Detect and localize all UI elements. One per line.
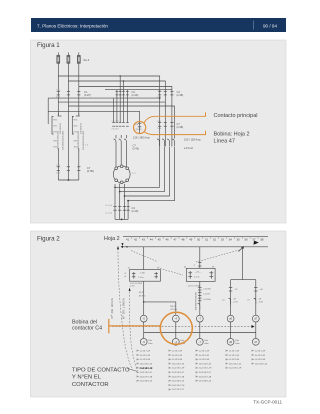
svg-text:Bobina: Hoja 2: Bobina: Hoja 2 <box>214 132 250 138</box>
figura 2 panel <box>31 231 287 397</box>
box B2 footnote specks <box>188 284 201 287</box>
wire H7 <box>48 110 139 112</box>
svg-text:44-H2 4/LINEA: 44-H2 4/LINEA <box>188 284 201 287</box>
contact row2 poles <box>112 123 128 127</box>
svg-text:2 4 2 4 6: 2 4 2 4 6 <box>112 128 119 130</box>
node delta join 2 <box>114 187 116 189</box>
svg-text:Nº DE HOJA: Nº DE HOJA <box>110 298 114 319</box>
svg-text:-28: -28 <box>233 298 236 300</box>
svg-text:43-44 /47 7-4B: 43-44 /47 7-4B <box>199 376 212 378</box>
dashed leader top-left <box>131 251 157 262</box>
contact list column 1 <box>137 350 153 383</box>
svg-text:92%: 92% <box>53 132 57 134</box>
wire star bus <box>58 179 79 181</box>
fuse F3 <box>77 56 80 64</box>
svg-text:100 / 128 Amp: 100 / 128 Amp <box>184 138 201 142</box>
node delta join 3 <box>119 191 121 193</box>
node delta join 4 <box>124 195 126 197</box>
svg-text:Hoja 2: Hoja 2 <box>104 236 120 242</box>
svg-text:(2-46): (2-46) <box>133 147 140 150</box>
svg-text:13-14 /44 7-46: 13-14 /44 7-46 <box>140 363 152 365</box>
svg-text:41-P: 41-P <box>139 292 144 294</box>
wire box2 down <box>199 281 201 315</box>
svg-text:1-2 /41 7-2H: 1-2 /41 7-2H <box>255 351 266 353</box>
wire H6 <box>68 105 174 107</box>
svg-text:56: 56 <box>245 238 249 242</box>
svg-text:3-4 /42 1-4D: 3-4 /42 1-4D <box>229 355 240 357</box>
wire phase L1 <box>57 53 59 116</box>
breaker on d7 branch <box>247 298 263 304</box>
overload relay OL1 <box>52 113 64 151</box>
svg-text:2 4 6: 2 4 6 <box>157 97 161 99</box>
wire delta return 4 <box>128 147 174 201</box>
contact list column 4 <box>226 350 242 370</box>
svg-text:L-43 4H0: L-43 4H0 <box>203 299 211 301</box>
svg-text:4rder: 4rder <box>148 342 153 345</box>
label tipo de contacto <box>72 367 130 388</box>
svg-text:13-14 /44 7-46: 13-14 /44 7-46 <box>172 363 184 365</box>
svg-text:2 4 6: 2 4 6 <box>56 97 60 99</box>
svg-text:(2-2H): (2-2H) <box>84 94 91 97</box>
label bobina del contactor C4 <box>72 320 102 332</box>
coil K-7 <box>196 315 203 322</box>
wire rail2 to symbols <box>144 333 256 339</box>
svg-text:53: 53 <box>221 238 225 242</box>
wire bus L2 <box>68 81 165 147</box>
svg-text:53-54 /48 1-46: 53-54 /48 1-46 <box>172 381 184 383</box>
svg-text:(2-HD): (2-HD) <box>87 170 94 173</box>
svg-text:45: 45 <box>158 238 162 242</box>
contact symbol circle C4 <box>172 338 184 345</box>
wire OL1 to contact <box>57 150 59 180</box>
wire drop to T <box>242 247 244 280</box>
svg-text:21-22 /45 1-2H: 21-22 /45 1-2H <box>199 368 212 370</box>
contact symbol circle K-5 <box>140 338 153 345</box>
orange callout line bobina <box>144 131 205 135</box>
motor M1 <box>113 165 130 184</box>
coil d7 <box>252 315 259 322</box>
svg-text:1051051051051051: 1051051051051051 <box>83 130 85 150</box>
leader tipo de contacto <box>127 368 137 371</box>
svg-text:44: 44 <box>184 266 186 268</box>
contact stack under box2 <box>198 287 211 301</box>
ruler pointer arrow <box>254 241 259 245</box>
svg-text:41: 41 <box>126 238 130 242</box>
node star point <box>68 179 70 181</box>
svg-text:13-14 /44 7-46: 13-14 /44 7-46 <box>199 363 211 365</box>
svg-text:1-2 /41 7-2H: 1-2 /41 7-2H <box>199 351 210 353</box>
node delta join <box>127 200 129 202</box>
rail arrow at line 55 <box>239 246 244 251</box>
contact C1 pole 2 <box>67 91 70 95</box>
svg-text:-2.7B: -2.7B <box>233 301 238 303</box>
margin arrow up <box>117 246 119 249</box>
dashed reference line <box>112 326 251 328</box>
svg-text:10%: 10% <box>74 126 78 128</box>
coil d6 <box>227 315 234 322</box>
svg-text:Línea 47: Línea 47 <box>214 138 235 144</box>
svg-text:42-H0: 42-H0 <box>130 285 135 287</box>
node tap L1 <box>119 75 121 77</box>
svg-text:C7: C7 <box>247 299 249 301</box>
svg-text:Figura 2: Figura 2 <box>37 236 60 243</box>
svg-text:+4: +4 <box>124 276 126 278</box>
start/stop box B2 <box>184 266 215 281</box>
svg-text:5-6 /43 2-4B: 5-6 /43 2-4B <box>140 359 151 361</box>
dashed leader to line 55 <box>196 250 241 263</box>
svg-text:7. Planos Eléctricos: Interpre: 7. Planos Eléctricos: Interpretación <box>37 23 108 28</box>
svg-text:44: 44 <box>150 238 154 242</box>
box B1 footnote specks <box>130 282 143 287</box>
svg-text:61-62 /49 2-2H: 61-62 /49 2-2H <box>172 385 185 387</box>
svg-text:13-14 /44 7-46: 13-14 /44 7-46 <box>229 363 241 365</box>
svg-text:93%: 93% <box>53 141 57 143</box>
label 41-P 47.9m <box>139 292 146 297</box>
node H4 end <box>159 97 161 99</box>
contact C1 pole 1 <box>57 91 60 95</box>
svg-text:4rder: 4rder <box>204 342 209 345</box>
svg-text:051051051051051: 051051051051051 <box>57 130 59 149</box>
hoja 2 pointer arrow <box>121 243 123 246</box>
wire bottom bus <box>115 218 128 220</box>
svg-text:10%: 10% <box>74 147 78 149</box>
svg-text:92%: 92% <box>74 132 78 134</box>
motor leads bottom <box>115 184 128 220</box>
contact C4 main (circled) <box>138 111 141 134</box>
line-number ruler <box>123 236 268 241</box>
header bar <box>31 18 286 32</box>
svg-text:Pide: Pide <box>204 340 208 342</box>
wire phase L2 <box>67 53 69 181</box>
contact C3 poles <box>158 91 173 95</box>
orange callout bobina <box>109 319 161 333</box>
contact list column 3 <box>196 350 212 383</box>
svg-text:43: 43 <box>142 238 146 242</box>
orange callout line contacto principal <box>144 112 206 122</box>
label bobina hoja 2 linea 47 <box>214 132 250 145</box>
wire left rail <box>47 98 49 124</box>
svg-text:TX-GCP-0011: TX-GCP-0011 <box>253 400 282 405</box>
svg-text:(2-47): (2-47) <box>136 129 142 131</box>
contact C7 row2 poles <box>158 123 173 127</box>
svg-text:1-2 /41 7-2H: 1-2 /41 7-2H <box>229 351 240 353</box>
dashed line arrow <box>252 325 255 328</box>
svg-text:6a 4: 6a 4 <box>84 58 90 62</box>
wire mid verticals <box>114 76 128 122</box>
svg-text:13-14 /44 7-46: 13-14 /44 7-46 <box>255 363 267 365</box>
svg-text:21-22 /45 1-2H: 21-22 /45 1-2H <box>172 368 185 370</box>
svg-text:93%: 93% <box>74 141 78 143</box>
svg-text:52: 52 <box>213 238 217 242</box>
coil C4 <box>172 315 179 322</box>
svg-text:10%: 10% <box>53 147 57 149</box>
svg-text:Nº DE LINEA: Nº DE LINEA <box>122 298 126 319</box>
svg-text:(2-4D): (2-4D) <box>132 94 139 97</box>
svg-text:+4 1-..: +4 1-.. <box>195 272 202 274</box>
wire top rail <box>123 246 268 248</box>
contact symbol circle d6 <box>227 338 240 345</box>
svg-text:31-32 /46 2-47: 31-32 /46 2-47 <box>199 372 211 374</box>
breaker on K-7 branch <box>198 303 200 309</box>
svg-text:4rder: 4rder <box>235 342 240 345</box>
contact C2 poles <box>116 91 129 95</box>
svg-text:051051051051051: 051051051051051 <box>78 130 80 149</box>
svg-text:51: 51 <box>205 238 209 242</box>
wire H4 <box>48 97 160 99</box>
svg-text:-28: -28 <box>258 298 261 300</box>
wire stubs above breakers <box>116 135 126 138</box>
rail left arrow <box>121 246 123 248</box>
contact on d7 branch <box>254 288 263 292</box>
motor leads top <box>116 146 126 167</box>
figura 1 panel <box>31 40 287 223</box>
svg-text:47.9 m: 47.9 m <box>170 309 177 311</box>
wire bottom rail <box>144 332 256 334</box>
svg-text:1051051051051051: 1051051051051051 <box>62 130 64 150</box>
svg-text:48: 48 <box>181 238 185 242</box>
svg-text:1 3 5: 1 3 5 <box>157 121 161 123</box>
wire drop to box1 <box>143 247 145 270</box>
wire branch d6 <box>230 280 232 316</box>
svg-text:53-54 /48 1-46: 53-54 /48 1-46 <box>140 381 152 383</box>
svg-text:1 3 5: 1 3 5 <box>56 90 60 92</box>
svg-text:contactor C4: contactor C4 <box>72 325 102 331</box>
breaker on d6 branch <box>222 298 238 304</box>
node rail tap <box>126 246 128 248</box>
wire delta return 2 <box>120 147 165 192</box>
svg-text:a-8 6-u0: a-8 6-u0 <box>184 147 194 150</box>
contact above box2 <box>193 263 201 267</box>
svg-text:58: 58 <box>260 238 264 242</box>
svg-text:1.12 m: 1.12 m <box>138 277 144 279</box>
dashed leader mid <box>160 269 183 276</box>
wire delta return 3 <box>124 147 169 197</box>
svg-text:3-4 /42 1-4D: 3-4 /42 1-4D <box>172 355 183 357</box>
fuse F2 <box>67 56 70 64</box>
svg-text:5-6 /43 2-4B: 5-6 /43 2-4B <box>229 359 240 361</box>
svg-text:Pide: Pide <box>148 340 152 342</box>
node tap L2 <box>123 80 125 82</box>
svg-text:+2 +4 +6: +2 +4 +6 <box>105 205 112 207</box>
contact symbol circle K-7 <box>196 338 209 345</box>
orange highlight circle C4 <box>134 121 146 133</box>
breaker contacts left group <box>114 139 127 146</box>
svg-text:+2: +2 <box>124 273 126 275</box>
svg-text:43-44 /47 7-4B: 43-44 /47 7-4B <box>172 376 185 378</box>
contact list column 2 <box>169 350 185 392</box>
svg-text:71-72 /50 7-47: 71-72 /50 7-47 <box>172 389 184 391</box>
svg-text:TIPO DE CONTACTO: TIPO DE CONTACTO <box>72 367 130 373</box>
contact C7-HD poles <box>57 167 81 171</box>
svg-text:L-41 4H: L-41 4H <box>203 294 210 296</box>
svg-text:47: 47 <box>173 238 177 242</box>
wire bus row2 <box>105 89 172 91</box>
svg-text:1 3 1 3 5: 1 3 1 3 5 <box>112 121 119 123</box>
svg-text:3-4 /42 1-4D: 3-4 /42 1-4D <box>199 355 210 357</box>
svg-text:N2-P: N2-P <box>170 306 176 308</box>
wire bus L3 <box>79 87 172 147</box>
svg-text:43-44 /47 7-4B: 43-44 /47 7-4B <box>140 376 153 378</box>
label N2-P 47.9m <box>170 306 177 311</box>
svg-text:(2-4D): (2-4D) <box>132 210 139 213</box>
svg-text:-2.7B: -2.7B <box>258 301 263 303</box>
svg-text:Pide: Pide <box>235 340 239 342</box>
dashed margin line linea <box>130 292 138 372</box>
coil K-5 <box>140 315 147 322</box>
contact symbol circle d7 <box>252 338 259 345</box>
wire coils to rail2 <box>144 322 256 333</box>
svg-text:21-22 /45 1-2H: 21-22 /45 1-2H <box>229 368 242 370</box>
svg-text:21-22 /45 1-2H: 21-22 /45 1-2H <box>140 367 153 370</box>
overload relay OL2 <box>72 113 89 151</box>
svg-text:1-2 /41 7-2H: 1-2 /41 7-2H <box>140 351 151 353</box>
svg-text:CONTACTOR: CONTACTOR <box>72 382 109 388</box>
wire H5 <box>58 101 165 103</box>
svg-text:E/B RETROCESO: E/B RETROCESO <box>195 292 197 310</box>
svg-text:3-4 /42 1-4D: 3-4 /42 1-4D <box>140 355 151 357</box>
svg-text:Y N°EN EL: Y N°EN EL <box>72 375 102 381</box>
wire drop to box2 <box>199 247 201 268</box>
contact C4-4D poles <box>113 207 129 211</box>
wire branch d7 <box>255 280 257 316</box>
svg-text:5-6 /43 2-4B: 5-6 /43 2-4B <box>172 359 183 361</box>
svg-text:(2-4B): (2-4B) <box>177 94 184 97</box>
svg-text:46: 46 <box>166 238 170 242</box>
svg-text:1.17 m: 1.17 m <box>194 276 200 278</box>
svg-text:90 / 94: 90 / 94 <box>263 23 277 28</box>
wire T branch <box>231 279 256 281</box>
svg-text:2 4 6: 2 4 6 <box>157 128 161 130</box>
svg-text:42: 42 <box>134 238 138 242</box>
svg-text:95%: 95% <box>74 120 78 122</box>
FIG1 content <box>48 53 257 221</box>
breaker contacts right group <box>157 139 174 146</box>
wire phase L3 <box>78 53 80 116</box>
contact list column 5 <box>252 350 267 366</box>
svg-text:31-32 /46 2-47: 31-32 /46 2-47 <box>172 372 184 374</box>
wire OL2 to contact <box>78 150 80 180</box>
node bottom bus <box>121 219 123 221</box>
svg-text:3-4 /42 1-4D: 3-4 /42 1-4D <box>255 355 266 357</box>
contact on d6 branch <box>229 288 238 292</box>
svg-text:54: 54 <box>229 238 233 242</box>
svg-text:10%: 10% <box>53 126 57 128</box>
svg-text:49: 49 <box>189 238 193 242</box>
svg-text:(2-4B): (2-4B) <box>177 126 184 129</box>
orange highlight circle coil C4 <box>160 312 192 344</box>
svg-text:5-6 /43 2-4B: 5-6 /43 2-4B <box>255 359 266 361</box>
dashed margin line hoja <box>118 249 133 371</box>
svg-text:55: 55 <box>237 238 241 242</box>
svg-text:1 3 5: 1 3 5 <box>157 90 161 92</box>
svg-text:5-6 /43 2-4B: 5-6 /43 2-4B <box>199 359 210 361</box>
wire right vertical 4 <box>174 106 176 139</box>
node C4 tap <box>143 301 145 303</box>
svg-text:53-54 /48 1-46: 53-54 /48 1-46 <box>199 381 211 383</box>
svg-text:1-2 /41 7-2H: 1-2 /41 7-2H <box>172 351 183 353</box>
svg-text:1-80: 1-80 <box>140 272 145 274</box>
svg-text:126 / 280 Amp: 126 / 280 Amp <box>133 136 150 140</box>
svg-text:1 3 5: 1 3 5 <box>56 165 60 167</box>
svg-text:47.9 m: 47.9 m <box>139 295 146 297</box>
svg-text:+2 +4 +6: +2 +4 +6 <box>105 212 112 214</box>
svg-text:Figura 1: Figura 1 <box>37 42 60 49</box>
svg-text:31-32 /46 2-47: 31-32 /46 2-47 <box>140 372 152 374</box>
fuse F1 <box>57 56 60 64</box>
contact C1 pole 3 <box>77 91 80 95</box>
wire node to C4 coil <box>144 302 176 315</box>
svg-text:41: 41 <box>128 268 130 270</box>
wire bus L1 <box>58 76 159 147</box>
wire box1 to node <box>143 281 145 315</box>
svg-text:95%: 95% <box>53 120 57 122</box>
svg-text:Contacto principal: Contacto principal <box>214 113 258 119</box>
start/stop box B1 <box>124 268 160 282</box>
svg-text:50: 50 <box>197 238 201 242</box>
FIG2 content <box>72 236 268 391</box>
svg-text:L-35 4H0: L-35 4H0 <box>203 288 211 290</box>
wire delta return 1 <box>115 147 160 188</box>
svg-text:2 4 6: 2 4 6 <box>56 173 60 175</box>
margin arrow up 2 <box>129 288 131 291</box>
svg-text:C4: C4 <box>222 299 224 301</box>
